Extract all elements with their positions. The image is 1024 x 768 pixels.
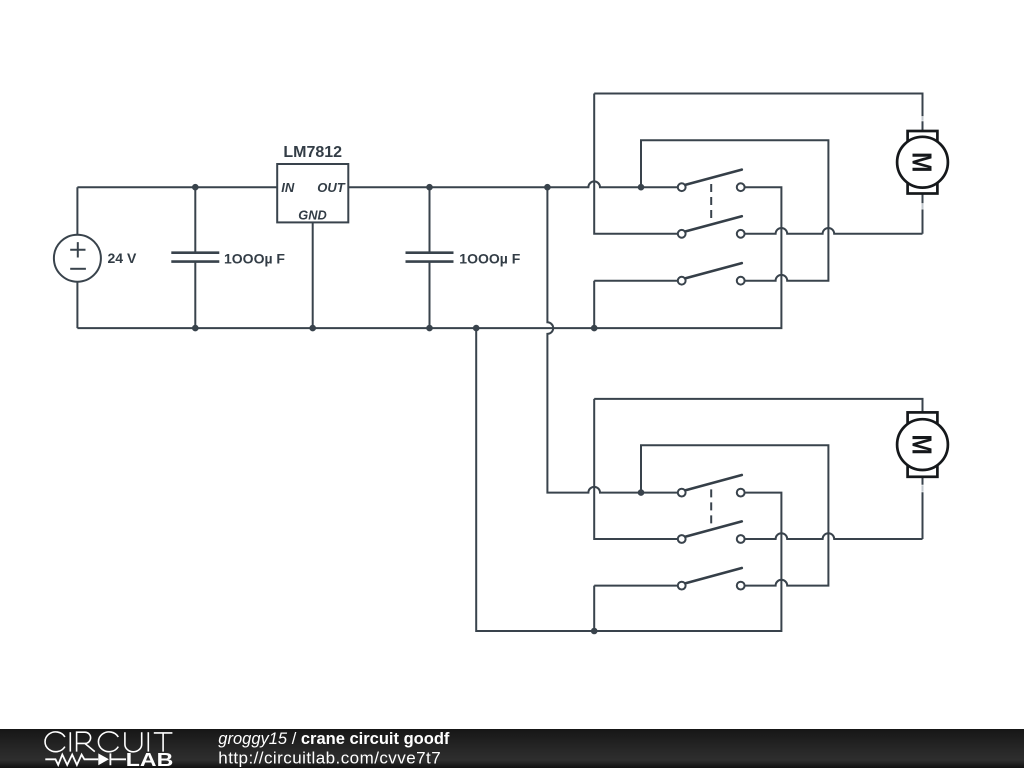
svg-text:GND: GND bbox=[298, 207, 326, 222]
svg-text:LAB: LAB bbox=[126, 750, 174, 768]
svg-text:LM7812: LM7812 bbox=[283, 144, 342, 161]
svg-text:groggy15 / crane circuit goodf: groggy15 / crane circuit goodf bbox=[218, 730, 450, 748]
svg-text:1OOOµ F: 1OOOµ F bbox=[459, 250, 520, 266]
svg-text:M: M bbox=[907, 152, 938, 173]
svg-text:24 V: 24 V bbox=[108, 250, 137, 266]
svg-text:OUT: OUT bbox=[317, 180, 346, 195]
svg-text:IN: IN bbox=[281, 180, 295, 195]
svg-text:M: M bbox=[907, 434, 938, 455]
svg-text:1OOOµ F: 1OOOµ F bbox=[224, 250, 285, 266]
svg-text:http://circuitlab.com/cvve7t7: http://circuitlab.com/cvve7t7 bbox=[218, 748, 441, 767]
